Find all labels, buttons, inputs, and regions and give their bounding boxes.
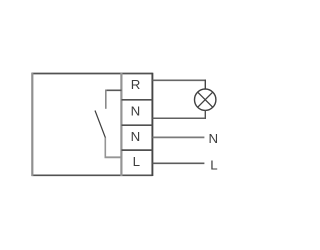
wire N2 terminal to supply N	[153, 136, 205, 138]
device enclosure top edge (shared with terminal block top)	[32, 73, 153, 75]
device right edge / terminal block left edge	[120, 73, 122, 176]
svg-text:L: L	[133, 154, 140, 169]
lamp E1	[195, 89, 216, 110]
terminal divider N/N	[122, 124, 153, 126]
wire lamp to N1 terminal (drop)	[204, 110, 206, 119]
wire L terminal to supply L	[153, 162, 205, 164]
wire R terminal to switch pole	[105, 89, 121, 91]
wire lamp to N1 terminal (horizontal)	[153, 117, 206, 119]
wire switch to L terminal	[105, 156, 122, 158]
terminal divider N/L	[122, 149, 153, 151]
device enclosure bottom edge (shared with terminal block bottom)	[32, 174, 153, 176]
terminal block right edge	[151, 73, 153, 176]
switch pole	[105, 90, 107, 109]
svg-text:L: L	[210, 157, 217, 172]
device enclosure left edge	[31, 73, 33, 176]
svg-text:N: N	[208, 131, 218, 146]
terminal divider R/N	[122, 99, 153, 101]
switch bottom lead	[104, 138, 106, 159]
svg-text:R: R	[131, 77, 141, 92]
switch S1 blade	[95, 111, 106, 139]
svg-text:N: N	[131, 129, 141, 144]
wire R terminal to lamp (drop)	[204, 80, 206, 90]
wire R terminal to lamp (horizontal)	[153, 79, 206, 81]
svg-text:N: N	[131, 104, 141, 119]
